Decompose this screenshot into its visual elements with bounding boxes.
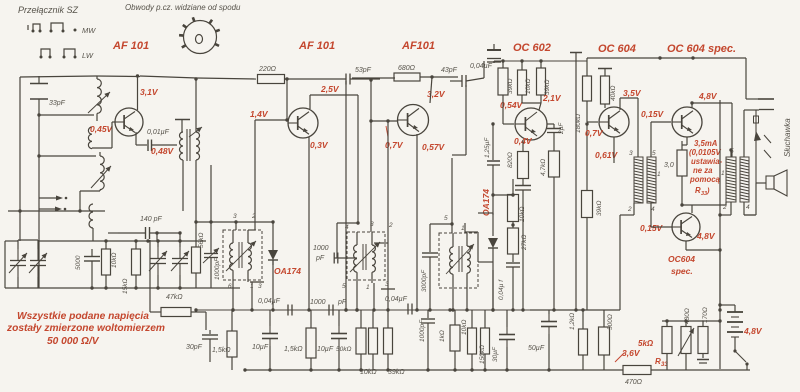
svg-text:4,8V: 4,8V [698,91,718,101]
ground rail bottom [243,368,623,371]
resistor [132,242,141,288]
variable capacitor C2 [29,249,47,277]
resistor R1 39k [498,68,508,95]
svg-text:39kΩ: 39kΩ [596,201,603,216]
wire [450,158,453,233]
svg-text:1000: 1000 [310,299,326,306]
pin 3b bar [381,281,395,289]
wire [501,59,504,68]
svg-text:OA174: OA174 [274,266,301,276]
transistor T6 OC604spec [672,107,702,137]
svg-text:pF: pF [315,255,325,262]
svg-text:AF101: AF101 [401,40,435,52]
svg-text:4,8V: 4,8V [743,326,763,336]
resistor R2 10k [518,70,527,95]
wire [5,240,18,242]
wire long separator [574,53,577,312]
label 0,15V t7 [640,223,664,233]
svg-text:3,1V: 3,1V [140,87,159,97]
wire [352,77,395,79]
label 5k red [638,339,654,348]
wire [18,277,38,288]
variable capacitor C3 [149,247,167,275]
svg-text:OA174: OA174 [481,189,491,216]
wire [718,202,731,217]
wire [511,222,514,228]
wire [4,241,6,288]
svg-text:140 pF: 140 pF [140,216,163,223]
node [90,286,181,289]
svg-text:0,04µF: 0,04µF [385,296,408,303]
chassis bar [570,52,582,54]
svg-text:OC 604 spec.: OC 604 spec. [667,43,736,55]
node [18,209,81,212]
wire [231,280,234,312]
svg-text:3: 3 [385,281,389,288]
wire [651,369,750,371]
wire [80,191,100,211]
resistor 1,2k [579,308,588,370]
svg-text:3: 3 [258,283,262,290]
resistor 1k [450,310,460,370]
svg-text:(0,0105V: (0,0105V [689,148,721,157]
wire [255,221,273,223]
driver transformer primary [634,157,643,203]
wire collector T3 [430,75,434,103]
wire collector T5 [620,98,638,157]
label 43pF [441,67,458,74]
label 39k b [596,201,603,216]
wire [18,240,38,249]
IF transformer T201 secondary [196,132,200,160]
switch S1 [733,344,748,370]
wire collector T7 [680,202,726,213]
label 10k [525,79,532,94]
wire base T1 [112,122,115,148]
IFT1 secondary [248,230,251,280]
wire [744,109,759,111]
wire emitter T3 [415,134,418,312]
wire base T4 [503,95,514,124]
svg-text:1000pF: 1000pF [214,257,221,280]
pin 1 [461,223,478,233]
wire emitter T5 [613,137,615,163]
label 0,01uF [147,129,170,136]
label 5000 [75,255,82,270]
label 4,8V t6 [698,91,718,101]
svg-text:0,3V: 0,3V [310,140,329,150]
label 0,48V [151,146,175,156]
svg-text:1,5kΩ: 1,5kΩ [284,346,303,353]
wire [355,280,358,312]
wire [38,239,150,242]
transistor T1 AF101 [115,108,143,136]
wire [586,230,588,310]
label 50uF [528,345,545,352]
wire base T7 [651,203,672,227]
svg-text:0,04µF: 0,04µF [258,298,281,305]
svg-text:27kΩ: 27kΩ [521,235,528,251]
capacitor 43pF [450,75,466,87]
pins out [721,148,750,211]
svg-text:0,01µF: 0,01µF [147,129,170,136]
node [268,368,550,371]
svg-text:ustawia-: ustawia- [691,157,723,166]
svg-text:Słuchawka: Słuchawka [783,118,792,157]
capacitor 1000pF c [421,310,435,342]
wire [491,262,494,312]
capacitor bypass [515,179,531,312]
svg-text:5: 5 [342,283,346,290]
transistor T7 OC604spec [672,213,700,241]
svg-text:4: 4 [345,224,349,231]
wire [149,240,151,312]
wire [466,61,484,81]
label OC604spec stage6 [667,43,736,55]
svg-text:180kΩ: 180kΩ [575,114,582,133]
label 30pF [186,344,203,351]
wire [522,95,541,103]
wire [430,223,452,225]
svg-text:1: 1 [721,170,725,177]
wire [285,78,347,80]
wire emitter T7 [686,241,722,252]
svg-text:3: 3 [629,150,633,157]
trimmer capacitor [203,222,219,288]
svg-text:OC604: OC604 [668,254,695,264]
variable capacitor C1 [9,249,27,277]
svg-text:1000pF: 1000pF [419,319,426,342]
resistor 4,7k [549,151,560,312]
svg-text:5000: 5000 [75,255,82,270]
svg-text:pF: pF [337,299,347,306]
svg-text:30µF: 30µF [492,346,499,362]
transistor T3 AF101 [398,105,429,136]
capacitor 33pF [30,76,48,115]
driver transformer T1 pins [627,150,661,213]
svg-text:47kΩ: 47kΩ [166,294,183,301]
label OC602 stage4 [513,42,551,54]
label 3R [664,162,674,169]
svg-text:2,5V: 2,5V [320,84,340,94]
resistor 680R [394,73,420,81]
svg-text:AF 101: AF 101 [112,40,149,52]
svg-text:33pF: 33pF [49,100,66,107]
svg-text:2,1V: 2,1V [542,93,562,103]
svg-text:4,7kΩ: 4,7kΩ [540,159,547,176]
label AF101 stage2 [298,40,335,52]
wire [586,58,588,76]
svg-text:zostały zmierzone woltomierzem: zostały zmierzone woltomierzem [6,323,165,334]
label 1,4V [250,109,269,119]
wire [37,154,96,157]
label 1000pF c [419,319,426,342]
resistor 150k b [481,310,490,370]
label 33pF [49,100,66,107]
driver transformer secondary [647,157,656,203]
label 30uF [492,346,499,362]
capacitor 0,01uF [148,140,177,152]
svg-text:2: 2 [388,222,393,229]
svg-text:50kΩ: 50kΩ [336,346,351,353]
svg-text:): ) [706,186,710,195]
switch diagram MW [28,23,96,35]
wire base T3 [369,119,397,122]
wire [511,179,514,197]
wire [8,211,118,233]
label 0,04uF s [258,298,281,305]
svg-text:1,25µF: 1,25µF [484,137,491,158]
wire base T5 [587,113,598,122]
svg-text:0,57V: 0,57V [422,142,446,152]
wire base T6 [651,122,671,145]
label 0,15V [641,109,665,119]
output transformer secondary [740,157,749,202]
resistor 56k [192,222,201,288]
label 1,5k b [284,346,303,353]
wire [235,222,237,230]
wire [195,160,197,222]
label 0,54V [500,100,524,110]
label 15k [122,279,129,294]
wire [148,233,206,247]
label 10k [111,253,118,268]
label 0,4V [514,136,533,146]
svg-text:39kΩ: 39kΩ [507,79,514,94]
capacitor 0,04uF top [487,44,501,63]
label OA174 [274,266,301,276]
supply rail [494,61,587,63]
pin 5 [342,283,346,290]
label 1,25uF [484,137,491,158]
label 2,5V [320,84,340,94]
coil arrow [350,242,380,272]
svg-text:0,04µF: 0,04µF [470,63,493,70]
IFT2 secondary [372,232,375,280]
label 0,7V b [585,128,604,138]
label 53pF [355,67,372,74]
resistor 27k [508,228,519,254]
resistor r a [369,310,378,370]
svg-text:5: 5 [652,150,656,157]
svg-text:820Ω: 820Ω [507,152,514,168]
svg-text:1kΩ: 1kΩ [439,330,446,342]
svg-text:30pF: 30pF [186,344,203,351]
svg-text:680Ω: 680Ω [398,65,416,72]
IFT1 primary [230,230,233,280]
svg-text:220Ω: 220Ω [258,66,277,73]
IF transformer T201 core [187,129,190,161]
capacitor 0,04uF s [288,305,292,316]
coil arrow [446,244,474,274]
wire [585,122,588,191]
svg-text:0,48V: 0,48V [151,146,175,156]
label 39k [507,79,514,94]
note voltages measured [6,311,165,347]
diode OA174 det [478,213,498,262]
capacitor 3000pF [422,224,438,312]
wire [620,203,634,310]
IFT2 shield box [347,232,385,280]
wire collector T2 [310,95,358,109]
svg-text:3,5mA: 3,5mA [694,139,718,148]
svg-text:1: 1 [366,284,370,291]
label 3,1V [140,87,159,97]
capacitor 1000pF [334,253,357,264]
svg-text:3: 3 [233,213,237,220]
LW coil [89,204,93,241]
label 1,5k [212,347,231,354]
pin 3 [370,221,374,228]
svg-text:2µF: 2µF [558,122,565,135]
label 3,6V red [622,348,641,358]
wire [140,76,256,79]
variable capacitor C4 [171,247,189,275]
label 56k [198,233,205,248]
wire [369,78,372,232]
resistor 150R [698,321,708,358]
output transformer primary [726,157,736,202]
wire emitter T6 [682,137,687,145]
ground rail [5,287,240,289]
svg-text:10kΩ: 10kΩ [111,253,118,268]
IF transformer T202 rail [194,220,255,223]
wire collector T1 [136,74,139,110]
label 2uF [558,122,565,135]
svg-text:OC 602: OC 602 [513,42,551,54]
resistor 50k [356,310,366,370]
svg-text:6: 6 [228,283,232,290]
pin 3 bar [250,282,264,290]
label OA174 vertical [481,189,491,216]
wire emitter T2 [307,137,310,312]
pin 5 [444,215,448,222]
wire [205,312,207,330]
wire [96,75,140,78]
resistor 40k b [601,76,610,108]
resistor R3 39k [537,68,546,95]
svg-text:2: 2 [722,204,727,211]
switch diagram LW [40,49,94,60]
IF transformer T201 primary [180,132,183,211]
wire [743,110,745,157]
wire [492,270,494,310]
chassis cap [598,69,612,77]
wire [285,77,288,121]
label 27k [521,235,528,251]
svg-text:56kΩ: 56kΩ [198,233,205,248]
svg-text:10µF: 10µF [317,346,334,353]
transistor T2 AF101 [288,108,318,138]
label 4,8V t7 [696,231,716,241]
pin 3 [233,213,237,220]
note bias [689,139,723,197]
capacitor 53pF [346,74,380,85]
node [231,308,494,311]
resistor 430R [662,319,672,370]
resistor 1,5k b [306,310,316,370]
label 0,3V [310,140,329,150]
capacitor 140pF [118,227,182,241]
label OC604 stage5 [598,43,636,55]
resistor 10k agc [508,195,519,222]
label 1000pF s [310,299,347,306]
label 0,61V [595,150,619,160]
wire collector T4 [539,103,541,110]
title Obwody p.cz. widziane od spodu [125,3,241,12]
wire [719,100,721,369]
svg-text:4,8V: 4,8V [696,231,716,241]
resistor 39k b [582,191,593,231]
label 0,04uF det [498,279,505,300]
wire [195,79,197,132]
IFT1 core [239,242,242,268]
resistor 40k a [583,76,592,113]
svg-text:1000: 1000 [313,245,329,252]
label 39k [544,80,551,95]
capacitor 2uF [547,124,561,151]
svg-text:40kΩ: 40kΩ [610,86,617,101]
label 10k agc [519,207,526,222]
label 180k [575,114,582,133]
wire [746,98,758,100]
resistor 1,5k [227,310,237,370]
wire [539,59,542,68]
svg-text:3: 3 [370,221,374,228]
svg-text:LW: LW [82,51,94,60]
svg-text:1: 1 [657,171,661,178]
label 10uF [252,344,269,351]
pin 2 [251,213,256,220]
pin 1 [250,283,254,290]
label 0,45V [90,124,114,134]
headphone jack [754,99,775,183]
svg-text:3,0: 3,0 [664,162,674,169]
label 0,57V [422,142,446,152]
label 470R [625,379,643,386]
supply rail right [587,56,746,59]
svg-text:Przełącznik SZ: Przełącznik SZ [18,5,79,15]
wire [356,95,359,225]
wire [452,85,466,155]
oscillator coil L3 [100,152,104,191]
IFT1 shield box [223,230,262,280]
wire emitter T4 [522,140,524,152]
svg-text:10kΩ: 10kΩ [525,79,532,94]
resistor 47k [150,308,206,317]
wire [650,145,652,157]
svg-text:0,15V: 0,15V [640,223,664,233]
wire [744,183,766,215]
svg-text:1,2kΩ: 1,2kΩ [569,313,576,330]
label 1000pF [313,245,329,262]
IF can bottom view [179,17,220,53]
label 0,04uF [470,63,493,70]
ecap 50uF [541,310,557,370]
speaker [766,170,787,196]
pin 1 [366,284,370,291]
chassis ground [697,360,709,364]
wire [745,58,747,99]
diode OA174 [268,220,278,265]
svg-text:53pF: 53pF [355,67,372,74]
transistor T5 OC604 [599,107,629,137]
ecap 30uF [499,310,515,370]
svg-text:0,04µ f: 0,04µ f [498,279,505,300]
label 4,7k [540,159,547,176]
wire [491,193,513,215]
svg-text:5: 5 [444,215,448,222]
